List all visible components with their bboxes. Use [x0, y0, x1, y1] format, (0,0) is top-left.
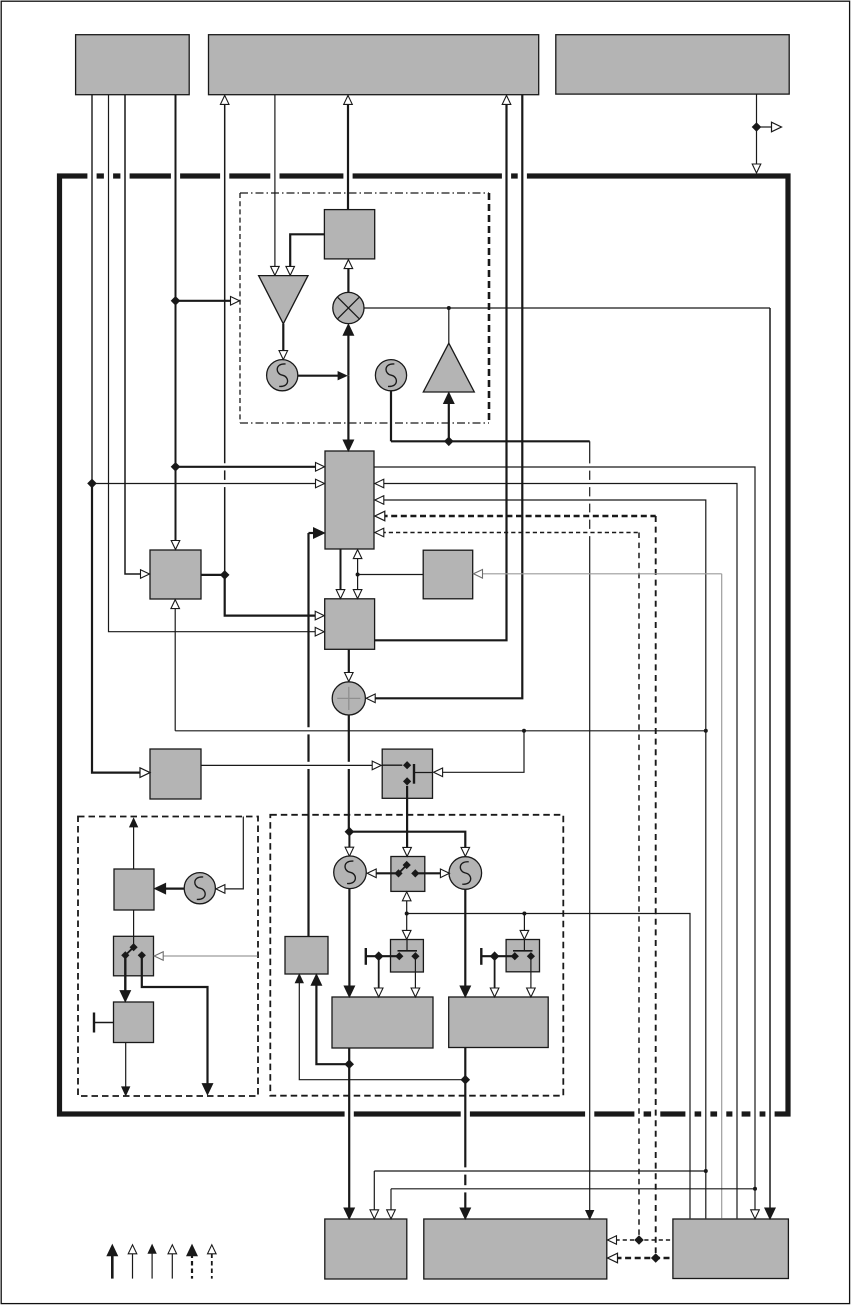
block U5 (lower-mid block) [325, 599, 375, 650]
dashed group box left (reference unit) [78, 817, 258, 1097]
block N (right dashed left block) [285, 937, 328, 975]
wire Q2 column down to box B [464, 1048, 466, 1168]
wire row4 y=516 heavy dashed from x=655.7 [382, 515, 656, 518]
oscillator G3 [334, 856, 367, 889]
block U1 (PLL divider square) [324, 210, 374, 259]
node J8 row1/box-A feed [753, 1187, 757, 1191]
wire branch J1 to U2 left input [92, 483, 317, 485]
wire T2 line x=274.9 to inverted triangle input [274, 95, 276, 267]
wire T1 line2 x=108.5 to U5 left input [109, 95, 317, 632]
block L3 (left dashed bottom block) [114, 1002, 154, 1043]
node J6 mixer output [447, 306, 451, 310]
oscillator G5 (left ref osc) [184, 873, 215, 904]
P2 internals and T-bar [523, 940, 525, 951]
block L1 (left dashed box top block) [114, 869, 154, 910]
dashed group box PLL right heavy edge [488, 193, 491, 423]
node J9 row3 junction [704, 729, 708, 733]
block Q2 (big bottom-right block of synth unit) [449, 997, 549, 1048]
wire Q1 output down to box A [348, 1048, 350, 1210]
wire dashed thin B-C link [616, 1239, 673, 1241]
wire V1 apex to oscillator G1 [282, 324, 284, 352]
block T3 (top-right external box) [556, 35, 789, 94]
wire V2 input from J7 [448, 402, 450, 442]
block C (bottom output box 3) [673, 1219, 789, 1279]
node J19 on Q2 column [461, 1075, 471, 1085]
wire J4 down to U5 left input [225, 575, 316, 616]
wire T1 line1 x=92 down to U6 [91, 95, 93, 484]
legend arrow bold solid [111, 1254, 114, 1279]
node J16 [405, 912, 409, 916]
block A (bottom output box 1) [325, 1219, 407, 1279]
block P2 (sample-hold switch 2) [506, 940, 539, 972]
block U3 (left-mid block) [150, 550, 201, 599]
mixer X1 (circle with X) [333, 292, 364, 323]
node J11 heavy dashed end [651, 1253, 661, 1263]
wire U5 output up to T2 x=506.5 [375, 104, 507, 641]
wire G2 output along y=441 [390, 391, 392, 442]
wire J19 to N bottom input 2 [299, 983, 465, 1080]
block U6 (small left block row2) [150, 749, 201, 799]
dashed group box right (synthesizer unit) [270, 815, 563, 1096]
wire M bottom to feed row y=913.5 [406, 900, 408, 913]
oscillator G2 [375, 360, 406, 391]
wire mixer output to right and down x=770 [364, 307, 770, 309]
node J7 on G2 output [444, 437, 454, 447]
main unit thick border [60, 176, 789, 1114]
wire G1 output to mixer column [298, 375, 339, 377]
wire U5 bottom to adder S1 [348, 649, 350, 672]
wire J14 to oscillator G3 top [348, 832, 350, 848]
wire J18 to N bottom input [316, 983, 349, 1064]
node J4 (U3 output junction) [220, 570, 230, 580]
wire U1 top to T2 [347, 104, 349, 210]
wire stub arrow right at J5 [757, 126, 772, 128]
wire dashed heavy B-C link [616, 1257, 673, 1260]
wire gray into L2 right edge [163, 955, 258, 957]
block P1 (sample-hold switch 1) [391, 940, 424, 973]
wire G4 down to Q2 [464, 890, 466, 989]
node J13 U4 tap [356, 573, 360, 577]
amplifier triangle V2 [423, 343, 474, 392]
block U4 (right-mid block) [423, 550, 473, 599]
wire L2 right contact down-right-down to dashed edge [142, 955, 208, 1084]
node J2 on line4 [171, 296, 181, 306]
wire into G5 from dashed edge [224, 817, 243, 889]
wire J17 down to P2 top [523, 914, 525, 931]
wire U1 left output to inverted triangle [290, 234, 324, 266]
wire adder output down to J14 [348, 715, 350, 762]
legend arrow filled thin [151, 1254, 153, 1279]
wire P1 contact to Q1 input [414, 956, 416, 988]
wire T2 down x=522.3 to adder right input [375, 95, 522, 698]
wire row3 y=500 from x=705.8 [382, 500, 706, 1218]
wire P2 contact to Q2 input [530, 956, 532, 988]
wire M left output to G3 [376, 872, 399, 874]
node J18 Q1 output [344, 1059, 354, 1069]
wire U3-J4 column x=224.7 up to T2 [224, 104, 226, 464]
adder S1 (circle with plus) [332, 682, 365, 715]
block L2 (left dashed switch block) [114, 936, 154, 976]
wire N output column x=308.5 to U2 left bold input [307, 533, 309, 727]
node J15 [522, 729, 526, 733]
wire L3 bottom to dashed edge [125, 1043, 127, 1088]
switch SW1 internals [382, 764, 402, 766]
wire T3 down x=756.5 [756, 94, 758, 164]
oscillator G4 [449, 857, 482, 890]
block U2 (tall control block) [325, 451, 374, 549]
wire U3 bottom feed line y=730.8 [174, 608, 176, 731]
wire row2 y=483.5 from x=737 [382, 484, 737, 1219]
L3 T-bar input [93, 1013, 95, 1033]
block SW1 (switch block top-right) [382, 749, 432, 798]
block B (bottom output box 2) [424, 1219, 607, 1279]
wire L2 to L3 bold arrow [124, 955, 126, 991]
block Q1 (big bottom-left block of synth unit) [332, 997, 433, 1048]
wire branch J2 into PLL dashed box [176, 300, 232, 302]
legend arrow dashed filled [191, 1254, 193, 1279]
node J3 on line4 [171, 462, 181, 472]
wire x=589.7 down to box B [589, 441, 591, 463]
wire J16 down to P1 top [406, 914, 408, 931]
block T2 (top-middle external box) [209, 35, 539, 95]
block M (commutator switch block) [391, 857, 425, 892]
node J12 thin dashed end [634, 1235, 644, 1245]
wire M right output to G4 [415, 872, 441, 874]
node J1 on line1 [87, 479, 97, 489]
legend arrow hollow thin [132, 1254, 134, 1279]
wire J6 down to amplifier V2 apex [448, 308, 450, 343]
oscillator G1 (PLL VCO) [267, 360, 298, 391]
wire mixer to U1 bottom [347, 267, 349, 292]
wire branch J3 to U2 left input bold [176, 466, 317, 468]
feed row y=913.5 to x=690 down to box C [407, 914, 690, 1219]
wire T1 line4 x=175.5 down to U3 top [175, 95, 177, 541]
switch L2 internals [130, 943, 138, 951]
node J5 on T3 wire [752, 122, 762, 132]
amplifier inverted triangle V1 [259, 276, 308, 324]
P1 internals and T-bar [406, 940, 408, 951]
wire row5 y=532.5 thin dashed from x=639 [382, 532, 639, 534]
node J10 row3 junction lower [704, 1169, 708, 1173]
wire T1 line3 x=125 to U3 left input [125, 95, 141, 574]
wire J14 right to oscillator G4 top [349, 832, 465, 848]
wire J15 branch to SW1 right input [442, 731, 525, 773]
wire P1 junction to Q1 input [378, 956, 380, 988]
legend arrow dashed hollow [211, 1254, 213, 1279]
commutator M internals [403, 861, 411, 869]
node J14 adder output junction [345, 827, 355, 837]
legend arrow hollow thin 2 [171, 1254, 173, 1279]
wire gray from box C up x=721.7 into U4 [721, 574, 723, 1219]
wire G5 output to L1 [164, 887, 185, 889]
wire P2 junction to Q2 input [494, 956, 496, 988]
wire U2 bottom to U5 top (down) [340, 549, 342, 591]
wire G3 down to Q1 [348, 889, 350, 988]
wire mixer column x=348.4 (up into mixer, down to U2) [347, 332, 349, 376]
block T1 (top-left external box) [76, 35, 190, 95]
wire U6 output to SW1 left input [201, 764, 373, 766]
wire L1 top arrow [133, 827, 135, 869]
wire feed to box A input 3 (y=1188.8) [391, 1188, 755, 1190]
wire L1 to L2 [133, 910, 135, 947]
wire feed to box A input 2 (y=1171) [374, 1170, 706, 1172]
dashed group box PLL (top) [240, 192, 489, 194]
wire U3 output to J4 [201, 574, 225, 576]
node J17 [522, 912, 526, 916]
wire SW1 bottom contact down to M [406, 786, 408, 848]
wire U5 top to U2 bottom (up) with U4 tap [357, 557, 359, 592]
wire U2 output row1 y=467 to x=755 down to box C [374, 467, 755, 1210]
